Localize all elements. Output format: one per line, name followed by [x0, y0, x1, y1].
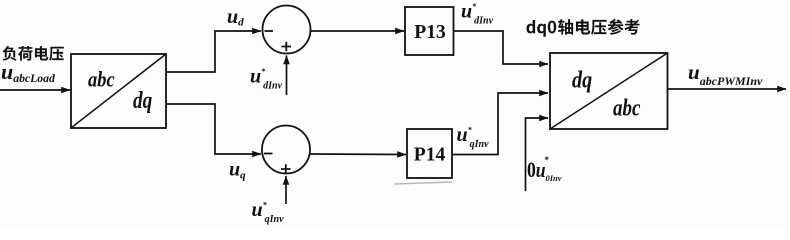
wire u_q from block to summing junction 2	[166, 104, 261, 154]
scan artifact smudge under P14	[394, 182, 452, 184]
svg-text:*: *	[545, 155, 550, 165]
svg-text:dq: dq	[133, 87, 152, 114]
svg-text:P14: P14	[414, 145, 446, 166]
block P14	[407, 129, 452, 178]
label 负荷电压 (load voltage)	[2, 46, 63, 61]
wire junction 2 to P14	[310, 153, 406, 156]
svg-text:dq: dq	[572, 66, 592, 93]
wire P13 to dq-abc block input 1	[454, 31, 549, 64]
svg-text:P13: P13	[414, 22, 446, 43]
minus sign junction 1	[265, 30, 274, 32]
block P13	[405, 7, 454, 55]
minus sign junction 2	[264, 153, 273, 155]
svg-text:0Inv: 0Inv	[546, 173, 562, 183]
svg-text:abc: abc	[613, 94, 641, 121]
wire u*_qInv arrow into junction 2	[285, 176, 287, 204]
block dq-to-abc transform	[550, 53, 668, 129]
wire 0u*_0Inv into dq-abc block input 3	[526, 118, 549, 191]
wire u_d from block to summing junction 1	[166, 31, 261, 72]
label dq0	[526, 20, 556, 37]
svg-text:0u: 0u	[527, 158, 546, 182]
plus sign junction 2	[281, 164, 291, 173]
label 0u*_0Inv	[527, 155, 562, 183]
wire u*_dInv arrow into junction 1	[286, 56, 288, 96]
wire junction 1 to P13	[311, 30, 405, 32]
summing junction 1	[263, 6, 311, 54]
svg-text:abc: abc	[88, 68, 115, 92]
block abc-to-dq transform	[71, 54, 166, 128]
label 轴电压参考 part of dq0-axis voltage reference	[558, 19, 640, 35]
wire P14 to dq-abc block input 2	[452, 93, 548, 155]
summing junction 2	[262, 126, 310, 174]
wire input u_abcLoad	[0, 89, 70, 91]
wire output u_abcPWMInv	[668, 88, 787, 90]
plus sign junction 1	[282, 42, 292, 51]
